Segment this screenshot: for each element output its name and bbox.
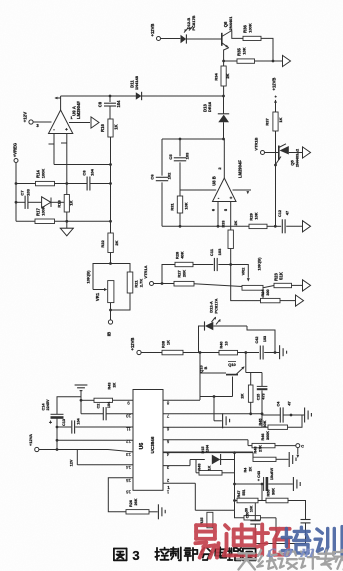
wire R46 to CT terminal (275, 445, 296, 447)
capacitor C9 (98, 96, 122, 119)
node CT terminal (296, 444, 304, 458)
wire pin3 node (163, 460, 205, 466)
label U8-B (212, 160, 243, 186)
svg-text:+12VB: +12VB (150, 24, 155, 37)
svg-text:B: B (204, 366, 208, 369)
wire ground row (16, 220, 111, 222)
svg-text:10K(B): 10K(B) (86, 270, 91, 284)
svg-text:103: 103 (26, 188, 31, 195)
svg-text:300: 300 (266, 289, 270, 295)
resistor R50 30K (266, 488, 288, 503)
svg-text:R16: R16 (100, 123, 105, 131)
svg-text:15: 15 (126, 478, 131, 483)
svg-text:30K: 30K (272, 488, 276, 495)
wire VTR1A to divider (154, 282, 174, 285)
wire window mid column (179, 139, 181, 226)
label Q10 base (200, 365, 208, 372)
caption Figure 3 control circuit (114, 547, 256, 563)
wire R36 to +12VB rail (261, 38, 274, 62)
svg-text:C11: C11 (209, 248, 214, 256)
node +VREG terminal (13, 143, 19, 163)
svg-text:1K: 1K (114, 124, 119, 129)
wire R14 right row (55, 182, 111, 185)
wire VREG rail (15, 163, 18, 222)
resistor R29 (249, 212, 268, 228)
wire feedback row (54, 164, 111, 166)
svg-text:1K: 1K (208, 465, 212, 470)
wire R38 to R40 (183, 351, 219, 354)
svg-text:C5: C5 (168, 154, 173, 160)
wire R51 right (261, 518, 277, 544)
wire R27 to VR2 (194, 284, 242, 287)
wire +12VB to D12-B (161, 38, 181, 40)
svg-text:+ C43: + C43 (257, 471, 261, 481)
rail +12VA column (56, 397, 81, 451)
svg-text:LM2904F: LM2904F (238, 160, 243, 178)
wire pin10 with capacitor C21 (81, 400, 133, 420)
svg-text:103: 103 (263, 336, 267, 342)
svg-text:C15: C15 (256, 394, 260, 401)
svg-text:2K: 2K (114, 240, 119, 245)
capacitor C5 103 (168, 152, 190, 161)
opto photodiode D12-B PC817B (181, 15, 196, 43)
capacitor C7 (16, 188, 42, 209)
svg-text:10K: 10K (254, 212, 259, 219)
svg-text:13: 13 (126, 452, 131, 457)
svg-text:26K: 26K (134, 498, 138, 505)
resistor R43 (80, 382, 133, 402)
svg-text:C7: C7 (20, 190, 25, 196)
connector arrow VR2 out (303, 280, 311, 291)
wire R35 to arrow (255, 60, 284, 62)
resistor R42 2K (240, 373, 254, 416)
wire +12V to op-amp U9 input (33, 121, 51, 123)
ground C43 (293, 477, 300, 491)
resistor R21 2.7K (127, 272, 143, 293)
svg-text:R45: R45 (258, 419, 262, 426)
wire window top row (162, 138, 225, 141)
svg-text:2K: 2K (225, 73, 230, 78)
svg-text:DR16: DR16 (207, 101, 212, 112)
wire C47 row (262, 414, 302, 428)
resistor R47 551 (235, 484, 267, 503)
wire feedback bottom rail (214, 397, 262, 421)
resistor R35 10K (237, 47, 255, 63)
wire lower divider row (231, 265, 263, 301)
svg-text:R46: R46 (261, 434, 265, 441)
wire VR1 bottom (110, 303, 112, 320)
svg-text:102: 102 (167, 172, 172, 179)
svg-text:C2: C2 (97, 404, 101, 409)
watermark gray antenna expert (237, 550, 343, 570)
resistor R40 10 (219, 341, 238, 355)
capacitor C6 (150, 172, 172, 181)
svg-text:C6: C6 (150, 174, 155, 180)
node VTR1B terminal (254, 137, 265, 154)
wire drive node down (200, 353, 226, 401)
svg-text:com: com (266, 541, 325, 561)
capacitor C8 104 (82, 168, 95, 190)
wire divider left corner (162, 265, 175, 284)
svg-text:R48: R48 (254, 447, 258, 454)
wire bottom rail far (255, 543, 305, 545)
svg-text:C50: C50 (246, 512, 250, 519)
wire R16 down middle column (109, 137, 112, 233)
svg-text:2K: 2K (234, 220, 238, 225)
wire R18 to ground row (65, 212, 68, 223)
wire pin8 to drive node (163, 399, 200, 401)
capacitor C50 (246, 503, 261, 544)
svg-text:C9: C9 (98, 101, 103, 107)
capacitor C14 electrolytic (42, 399, 64, 426)
svg-text:R43: R43 (108, 383, 112, 390)
wire pin2 down (194, 483, 196, 510)
svg-text:40K: 40K (180, 251, 185, 258)
svg-text:10: 10 (225, 341, 229, 345)
resistor R27 20K (174, 270, 194, 286)
svg-text:R34: R34 (214, 73, 219, 81)
svg-text:C13: C13 (62, 419, 66, 426)
svg-text:PC817A: PC817A (213, 298, 218, 313)
wire C12 to arrow (286, 225, 302, 227)
wire bottom row of window (162, 225, 277, 228)
wire top rail segment A (61, 95, 112, 98)
resistor R25 vertical (200, 512, 213, 528)
resistor R45 30K (258, 415, 302, 429)
svg-text:30: 30 (245, 508, 249, 512)
connector arrow Q5 out (289, 147, 311, 158)
svg-text:1N4148: 1N4148 (134, 75, 139, 90)
svg-text:C12: C12 (278, 210, 282, 217)
svg-text:VR2: VR2 (241, 267, 246, 276)
wire U8 inverting input (180, 189, 216, 191)
resistor R34 2K (214, 61, 230, 96)
wire U9 output (69, 122, 90, 124)
svg-text:R49: R49 (198, 464, 202, 471)
node +12VA terminal (28, 434, 39, 452)
ground R48 (276, 452, 296, 467)
transistor Q6 2N4401 (222, 16, 243, 61)
wire terminal to R38 (141, 352, 162, 354)
svg-text:IB: IB (107, 332, 112, 336)
wire top rail segment C (142, 95, 225, 98)
connector arrow R24 out (296, 295, 304, 306)
svg-text:100K: 100K (41, 169, 46, 179)
resistor R18 (57, 195, 74, 213)
watermark cursive com (266, 541, 325, 561)
wire R29 right (267, 225, 281, 227)
svg-text:20K: 20K (182, 270, 187, 277)
resistor R22 (100, 233, 119, 253)
svg-text:Q5: Q5 (290, 160, 295, 166)
svg-text:10K: 10K (250, 505, 254, 512)
wire pot top loop (93, 264, 130, 290)
resistor R49 (196, 460, 235, 476)
wire U8 pin5 stub (223, 202, 231, 231)
ground right cluster (302, 408, 311, 423)
resistor R36 100K (243, 23, 262, 40)
wire bottom row (195, 509, 234, 511)
wire pin12 row (56, 439, 133, 442)
svg-text:10K: 10K (184, 202, 189, 209)
resistor R31 (170, 196, 189, 213)
svg-text:2.7K: 2.7K (139, 279, 144, 288)
watermark blue PeiXun (282, 527, 342, 555)
wire R50 to right column (288, 501, 306, 520)
svg-text:2K: 2K (240, 393, 245, 398)
diode D15 (201, 444, 235, 465)
capacitor C47 (276, 401, 291, 423)
wire U8 non-inverting input (233, 190, 252, 194)
svg-text:+12VA: +12VA (28, 434, 33, 446)
svg-text:104: 104 (90, 168, 95, 175)
svg-text:100K: 100K (248, 23, 253, 33)
resistor R16 (100, 119, 119, 137)
svg-text:1K: 1K (167, 340, 171, 345)
wire U8 pin6 stub (211, 202, 220, 228)
capacitor C42 103 (255, 336, 267, 360)
wire VR2 to R23 (263, 286, 274, 288)
node +12VB opto terminal (150, 24, 161, 41)
svg-text:C14: C14 (42, 403, 46, 411)
svg-text:C: C (301, 445, 304, 449)
wire R14 left (16, 183, 36, 185)
ground left (60, 221, 74, 236)
svg-text:+12VB: +12VB (130, 338, 135, 351)
node IB terminal (107, 320, 113, 336)
svg-text:+: + (230, 196, 233, 201)
wire Q6 emitter node (222, 60, 237, 63)
svg-text:R22: R22 (100, 240, 105, 248)
wire sense column (233, 453, 236, 511)
diode D11 1N4148 (130, 75, 142, 100)
capacitor C43 electrolytic (235, 467, 293, 491)
wire R23 to arrow (292, 284, 303, 286)
capacitor C12 (278, 210, 290, 233)
svg-text:47: 47 (288, 401, 292, 405)
resistor R26 (126, 498, 149, 514)
wire pin11 with capacitor C13 (56, 417, 133, 433)
potentiometer VR1 wiper (86, 270, 108, 301)
svg-text:103: 103 (217, 248, 222, 255)
svg-text:LM2904F: LM2904F (76, 101, 81, 119)
svg-text:PC817B: PC817B (191, 15, 196, 30)
svg-text:16: 16 (126, 490, 131, 495)
svg-text:C42: C42 (255, 337, 259, 344)
svg-text:27K: 27K (259, 445, 263, 452)
resistor R23 51K (274, 272, 292, 288)
svg-text:10K(B): 10K(B) (257, 257, 262, 271)
ground R26 (149, 504, 165, 519)
wire Q10 emitter row (200, 395, 233, 398)
wire LED to right column (247, 326, 275, 353)
svg-text:2N4403A2: 2N4403A2 (295, 149, 299, 167)
extra labels sense row (244, 466, 253, 472)
connector arrow U9 output (91, 117, 99, 128)
resistor R51 (244, 505, 261, 520)
diode D13 DB16 (203, 96, 230, 139)
wire R24 to arrow (280, 300, 296, 302)
svg-text:10u6V/: 10u6V/ (270, 467, 274, 480)
wire Q10 collector row (246, 372, 262, 374)
node +12VB drive terminal (130, 338, 141, 355)
ground right of C42 (280, 345, 287, 359)
connector arrow comparator out (303, 221, 311, 232)
wire C42 to ground (264, 351, 279, 354)
potentiometer VR1 body (108, 281, 114, 303)
wire pin2 row (163, 483, 195, 490)
svg-text:51K: 51K (279, 272, 284, 280)
svg-text:1K: 1K (69, 200, 74, 205)
wire +12VA to pin13 (39, 450, 133, 452)
svg-text:R24: R24 (261, 289, 265, 297)
svg-text:+12VB: +12VB (272, 78, 277, 91)
svg-text:C8: C8 (82, 170, 87, 176)
svg-text:D15: D15 (201, 447, 205, 454)
diode D14 (42, 197, 64, 208)
svg-text:R50: R50 (267, 490, 271, 497)
resistor R48 27K (253, 445, 276, 462)
watermark red YiDiTuo (195, 524, 289, 557)
svg-text:R26: R26 (129, 500, 133, 507)
svg-text:VR1: VR1 (95, 292, 100, 301)
svg-text:Q10: Q10 (228, 362, 236, 367)
wire pin15 to R26 (108, 478, 133, 512)
wire pin14 corner (70, 450, 134, 467)
svg-text:103: 103 (185, 152, 190, 159)
svg-text:R4: R4 (244, 468, 248, 473)
wire Q5 collector down (275, 146, 277, 226)
svg-text:1N4: 1N4 (206, 444, 210, 452)
svg-text:551: 551 (242, 489, 246, 495)
svg-text:104: 104 (116, 100, 121, 108)
label U9-A LM2904 (72, 101, 82, 119)
svg-text:+VREG: +VREG (13, 143, 18, 157)
wire R22 to pot (109, 253, 112, 265)
svg-text:R31: R31 (170, 203, 175, 211)
svg-text:+: + (49, 420, 52, 426)
opto LED D12-A PC817A (199, 298, 248, 352)
op-amp U8-B LM2904 (213, 139, 237, 202)
potentiometer VR2 body (242, 257, 263, 290)
resistor R33 (222, 220, 239, 248)
IC U6 UC3846 body (133, 390, 163, 491)
wire U9 pin stubs (49, 134, 67, 195)
connector arrow +12VB feed (283, 55, 291, 66)
node +12VB arrow terminal (272, 78, 278, 112)
wire U9 apex to top rail (60, 96, 62, 110)
svg-text:R40: R40 (220, 342, 224, 349)
svg-text:VTR1A: VTR1A (143, 265, 148, 278)
wire window left column (161, 139, 163, 226)
transistor Q10 (226, 353, 246, 397)
resistor R14 100K (36, 169, 55, 186)
svg-text:UC3846: UC3846 (150, 436, 155, 453)
svg-text:1K: 1K (278, 117, 283, 122)
resistor R46 300K (252, 431, 275, 448)
svg-text:+: + (65, 127, 68, 132)
svg-text:3: 3 (132, 548, 139, 563)
capacitor C15 473 (256, 373, 267, 416)
ground mid rail (214, 413, 230, 428)
node VTR1A terminal (143, 265, 154, 285)
svg-text:VTR1B: VTR1B (254, 137, 259, 150)
transistor Q5 2N4403A2 (274, 144, 299, 167)
svg-text:2K: 2K (249, 466, 253, 471)
svg-text:+12V: +12V (23, 112, 28, 122)
wire R40 to C42 (238, 351, 260, 354)
wire pin6 row (163, 426, 262, 428)
node +12V input terminal (23, 112, 40, 128)
wire pin5 to R46 (163, 440, 252, 446)
wire R21 bottom (109, 293, 130, 311)
IC U6 pin numbers (126, 401, 170, 495)
svg-text:R47: R47 (237, 491, 241, 498)
svg-text:R18: R18 (57, 200, 62, 208)
wire R28 to C11 (193, 264, 213, 266)
svg-text:100K: 100K (41, 206, 46, 216)
wire bottom to timing box (235, 510, 245, 518)
capacitor C11 103 (209, 248, 222, 271)
svg-text:12V: 12V (70, 459, 74, 466)
ground top left (75, 385, 88, 400)
wire VTR1B to Q5 base (265, 152, 279, 154)
wire pin7 row (163, 413, 214, 415)
resistor R28 40K (175, 251, 194, 267)
svg-text:104: 104 (77, 417, 81, 424)
svg-text:104: 104 (107, 401, 111, 408)
wire top rail segment B (110, 95, 136, 97)
svg-text:R37: R37 (265, 118, 270, 126)
resistor R17 100K (35, 206, 55, 223)
resistor R24 300 (261, 289, 281, 303)
wire pin4 sense rail (163, 451, 253, 454)
arrow marker top rail left end (54, 97, 60, 100)
resistor R37 1K (265, 112, 283, 131)
wire R33 to divider node (229, 249, 232, 266)
svg-text:U8 B: U8 B (212, 176, 217, 186)
op-amp U9-A LM2904 (49, 110, 74, 134)
wire C11 to node (218, 264, 230, 266)
wire R37 to Q5 (275, 131, 277, 146)
resistor R38 1K (162, 340, 184, 355)
svg-text:47: 47 (286, 211, 290, 215)
svg-text:30K: 30K (263, 420, 267, 427)
wire D12-B to Q6 base (186, 38, 221, 40)
svg-text:10K: 10K (242, 47, 247, 54)
wire node to VR2 wiper (231, 265, 250, 282)
capacitor C52 (301, 520, 311, 544)
svg-text:2N4401: 2N4401 (228, 16, 233, 31)
svg-text:300K: 300K (266, 431, 270, 440)
svg-text:R38: R38 (162, 341, 166, 348)
svg-text:2K: 2K (113, 382, 117, 387)
svg-text:U6: U6 (139, 443, 145, 450)
svg-text:14: 14 (126, 465, 131, 470)
svg-text:2245V: 2245V (46, 399, 50, 410)
